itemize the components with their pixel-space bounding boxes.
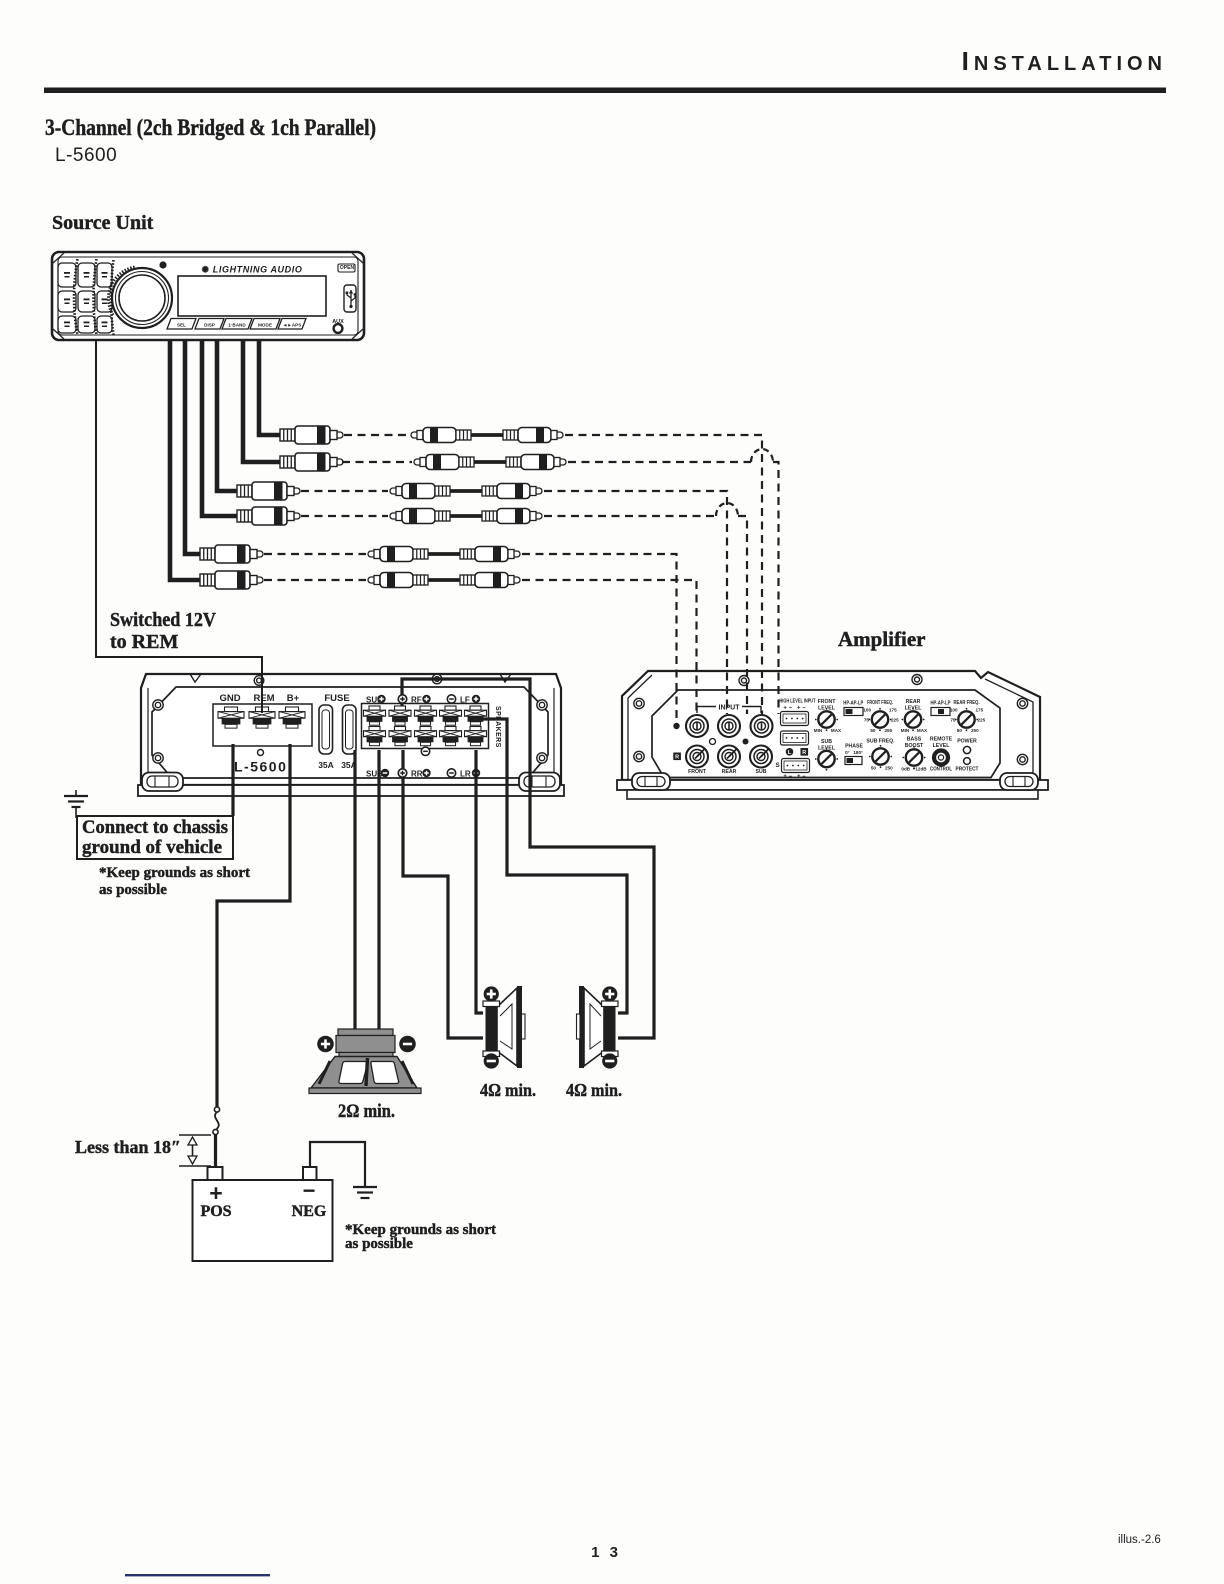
svg-text:75: 75 <box>864 718 870 723</box>
svg-text:PROTECT: PROTECT <box>956 767 979 773</box>
svg-text:SPEAKERS: SPEAKERS <box>494 706 501 748</box>
svg-text:250: 250 <box>885 766 893 771</box>
svg-text:+ − + −: + − + − <box>783 706 806 712</box>
svg-text:50: 50 <box>870 728 876 733</box>
svg-text:RF: RF <box>411 696 422 705</box>
svg-text:L-5600: L-5600 <box>55 145 117 166</box>
svg-text:POS: POS <box>200 1203 231 1220</box>
svg-text:illus.-2.6: illus.-2.6 <box>1118 1534 1161 1546</box>
svg-text:100: 100 <box>950 708 958 713</box>
svg-text:−: − <box>303 1178 316 1203</box>
svg-text:DISP: DISP <box>204 323 215 328</box>
svg-text:35A: 35A <box>318 760 334 770</box>
svg-text:SUB: SUB <box>756 769 767 775</box>
svg-text:NEG: NEG <box>292 1203 327 1220</box>
svg-text:INSTALLATION: INSTALLATION <box>962 46 1167 76</box>
svg-text:100: 100 <box>863 708 871 713</box>
svg-text:MAX: MAX <box>917 728 928 733</box>
svg-text:Connect to chassis: Connect to chassis <box>82 817 228 838</box>
svg-text:4Ω min.: 4Ω min. <box>566 1080 622 1100</box>
svg-text:LR: LR <box>460 770 471 779</box>
svg-text:ground of vehicle: ground of vehicle <box>82 837 222 858</box>
svg-text:MODE: MODE <box>258 323 272 328</box>
svg-text:SEL: SEL <box>177 323 186 328</box>
svg-text:as possible: as possible <box>345 1236 413 1252</box>
svg-text:PHASE: PHASE <box>845 744 863 750</box>
svg-text:175: 175 <box>889 708 897 713</box>
svg-text:*Keep grounds as short: *Keep grounds as short <box>99 865 250 881</box>
svg-text:REAR: REAR <box>722 769 737 775</box>
svg-text:SUB: SUB <box>821 739 832 745</box>
svg-text:HP-AP-LP: HP-AP-LP <box>931 701 952 707</box>
svg-text:0° 180°: 0° 180° <box>845 750 863 755</box>
svg-text:FRONT FREQ.: FRONT FREQ. <box>867 700 893 706</box>
svg-text:Switched 12V: Switched 12V <box>110 609 216 631</box>
svg-text:INPUT: INPUT <box>719 705 741 712</box>
svg-text:POWER: POWER <box>957 739 977 745</box>
svg-text:50: 50 <box>957 728 963 733</box>
svg-text:HIGH LEVEL INPUT: HIGH LEVEL INPUT <box>780 699 817 705</box>
svg-text:REMOTE: REMOTE <box>930 737 953 743</box>
svg-text:FUSE: FUSE <box>324 693 349 704</box>
svg-text:✺ LIGHTNING AUDIO: ✺ LIGHTNING AUDIO <box>202 265 303 275</box>
svg-text:BASS: BASS <box>907 737 922 743</box>
svg-text:SUB FREQ.: SUB FREQ. <box>866 739 895 745</box>
svg-text:◄►APS: ◄►APS <box>283 323 302 328</box>
svg-text:1 3: 1 3 <box>591 1544 621 1561</box>
svg-text:75: 75 <box>950 718 956 723</box>
svg-text:REAR FREQ.: REAR FREQ. <box>954 700 980 706</box>
svg-text:B+: B+ <box>287 693 300 704</box>
svg-text:FRONT: FRONT <box>818 699 837 705</box>
svg-text:MIN: MIN <box>814 728 823 733</box>
svg-text:250: 250 <box>971 728 979 733</box>
svg-text:Amplifier: Amplifier <box>838 627 925 651</box>
svg-text:225: 225 <box>891 718 899 723</box>
svg-text:LEVEL: LEVEL <box>933 743 951 749</box>
svg-text:HP-AP-LP: HP-AP-LP <box>843 701 864 707</box>
svg-text:225: 225 <box>978 718 986 723</box>
svg-text:OPEN: OPEN <box>340 265 355 271</box>
svg-text:175: 175 <box>976 708 984 713</box>
svg-text:L-5600: L-5600 <box>234 759 287 775</box>
svg-text:0dB +12dB: 0dB +12dB <box>901 767 927 772</box>
svg-text:2Ω min.: 2Ω min. <box>338 1101 395 1122</box>
svg-text:4Ω min.: 4Ω min. <box>480 1080 536 1100</box>
svg-text:GND: GND <box>219 693 240 704</box>
svg-text:RR: RR <box>411 770 423 779</box>
svg-text:FRONT: FRONT <box>688 769 707 775</box>
svg-text:R: R <box>675 755 679 761</box>
svg-text:250: 250 <box>885 728 893 733</box>
svg-text:R: R <box>802 750 806 756</box>
svg-text:to REM: to REM <box>110 631 178 653</box>
svg-text:LF: LF <box>460 696 470 705</box>
svg-text:REM: REM <box>253 693 274 704</box>
svg-text:MIN: MIN <box>901 728 910 733</box>
svg-text:1·BAND: 1·BAND <box>228 323 246 328</box>
svg-text:CONTROL: CONTROL <box>930 767 952 773</box>
svg-text:Source Unit: Source Unit <box>52 212 154 234</box>
svg-text:REAR: REAR <box>906 699 921 705</box>
svg-text:Less than 18″: Less than 18″ <box>75 1137 181 1157</box>
svg-text:+ − + −: + − + − <box>783 774 806 780</box>
svg-text:as possible: as possible <box>99 882 167 898</box>
svg-text:S: S <box>775 762 780 769</box>
svg-text:50: 50 <box>871 766 877 771</box>
svg-text:3-Channel (2ch Bridged & 1ch P: 3-Channel (2ch Bridged & 1ch Parallel) <box>45 115 376 140</box>
svg-text:MAX: MAX <box>831 728 842 733</box>
